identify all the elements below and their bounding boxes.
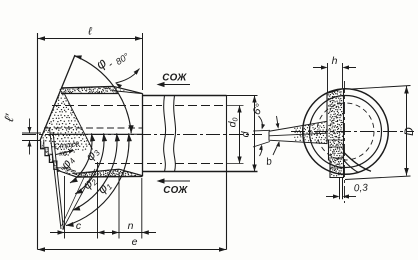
angle arc phi3 <box>75 133 107 194</box>
angle arc phi2 <box>73 133 121 210</box>
dimension d <box>240 96 257 172</box>
dimension D <box>345 86 416 180</box>
svg-text:6°: 6° <box>251 102 267 117</box>
chip mouth curve <box>344 152 372 173</box>
dimension n <box>105 172 157 239</box>
svg-text:ℓ: ℓ <box>87 26 92 38</box>
coolant arrow bottom <box>157 178 191 183</box>
blade band steps <box>327 140 344 168</box>
label 80deg <box>114 51 131 67</box>
coolant arrow top <box>157 82 191 87</box>
svg-text:φ3: φ3 <box>83 144 103 163</box>
svg-text:D: D <box>402 127 416 136</box>
svg-text:80°: 80° <box>114 51 131 67</box>
cone upper flank edge <box>40 55 75 141</box>
blade band outline <box>327 89 344 178</box>
blade bottom band stipple <box>76 169 138 177</box>
extension line at drill tip plane <box>37 33 39 250</box>
blade wedge brazing boundary <box>65 94 93 150</box>
svg-text:СОЖ: СОЖ <box>163 185 188 196</box>
dimension l <box>38 26 143 91</box>
angle arc phi1 <box>66 133 132 227</box>
tube top line <box>143 95 227 97</box>
angle arc phi <box>75 55 134 133</box>
dimension l' <box>1 112 41 154</box>
label SOZh top <box>162 73 187 84</box>
facet extension lines <box>50 129 96 230</box>
side blade wedge outline <box>269 121 327 143</box>
tube bottom line <box>143 171 258 173</box>
vertical centre line (right view) <box>344 81 346 203</box>
bore hidden line bottom <box>95 163 244 165</box>
bore hidden line top <box>52 105 244 107</box>
label phi <box>93 55 116 72</box>
blade bottom band outline <box>73 169 143 177</box>
outer circle D <box>303 89 389 175</box>
centre axis line (left view) <box>22 134 262 136</box>
dimension e <box>38 236 227 252</box>
blade top band outline <box>61 86 143 93</box>
svg-text:0,3: 0,3 <box>354 183 369 195</box>
chip arrow <box>56 150 75 155</box>
svg-text:n: n <box>128 220 134 232</box>
svg-text:e: e <box>132 236 138 248</box>
outer corner stipple <box>59 167 75 176</box>
taper extension lines <box>253 130 270 147</box>
reference dashed line <box>44 127 143 129</box>
dimension h <box>313 55 356 93</box>
bore circle hidden <box>317 103 374 160</box>
centre axis line (right view) <box>291 131 414 133</box>
blade wedge stipple <box>42 89 92 156</box>
dimension d0 <box>227 106 242 164</box>
angle 6deg <box>251 102 267 156</box>
head back edge <box>142 93 144 176</box>
angle arc 80deg <box>116 69 140 89</box>
break line left <box>164 96 166 172</box>
dimension c <box>50 162 112 239</box>
label phi2 <box>80 173 100 193</box>
svg-text:ℓ′: ℓ′ <box>1 112 17 123</box>
dimension 0,3 <box>326 178 369 200</box>
svg-text:φ2: φ2 <box>80 173 100 193</box>
tube top extension for d <box>227 95 258 97</box>
label phi3 <box>83 144 103 163</box>
inner circle <box>310 96 382 168</box>
svg-text:СОЖ: СОЖ <box>162 73 187 84</box>
stepped edge inner line <box>44 140 61 168</box>
break line right <box>174 96 176 172</box>
blade band stipple <box>328 91 344 176</box>
outer corner edge <box>58 167 76 177</box>
blade top band stipple <box>61 86 117 94</box>
stepped cutting edge <box>41 141 58 172</box>
stepped edge strip stipple <box>42 143 59 169</box>
dimension b <box>265 116 280 168</box>
svg-text:h: h <box>332 55 338 67</box>
tube end face <box>226 96 228 250</box>
svg-text:d0: d0 <box>227 118 240 128</box>
side blade wedge stipple <box>294 122 327 144</box>
svg-text:d: d <box>240 130 252 137</box>
label phi1 <box>95 178 114 197</box>
axis solid segment in head <box>52 133 143 135</box>
label phi4 <box>58 153 78 172</box>
angle arc phi4 <box>70 133 95 183</box>
svg-text:c: c <box>76 220 82 232</box>
chamfer sliver stipple <box>114 88 132 92</box>
label SOZh bottom <box>163 185 188 196</box>
svg-text:b: b <box>265 156 273 168</box>
label Struzhka <box>53 139 80 158</box>
